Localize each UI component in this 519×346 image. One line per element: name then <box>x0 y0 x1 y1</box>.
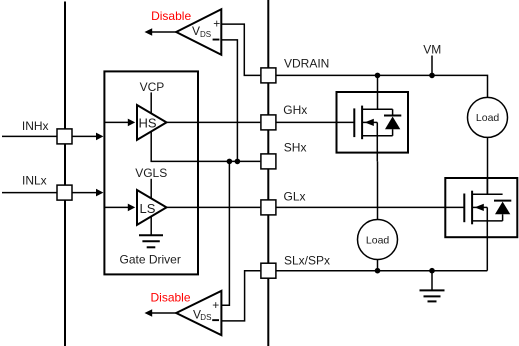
wire ground stem bottom right <box>431 271 433 291</box>
load 2 (VM load) <box>468 97 508 137</box>
transistor Q1 internals <box>354 106 401 162</box>
wire high-side FET drain from VDRAIN <box>377 75 379 109</box>
svg-text:Load: Load <box>476 112 500 124</box>
wire GLx net: LS output to pad and to FET gate <box>167 206 465 208</box>
wire INLx input line <box>2 189 103 197</box>
GHx label <box>283 103 307 117</box>
svg-text:V: V <box>192 24 200 38</box>
comparator U3 VDS bottom triangle <box>176 291 221 335</box>
svg-text:VGLS: VGLS <box>135 166 167 180</box>
svg-text:SHx: SHx <box>284 141 307 155</box>
wire SLx net <box>277 270 488 272</box>
pad GLx <box>261 200 276 215</box>
wire middle pad bus vertical <box>267 0 269 346</box>
pad INLx <box>57 185 72 200</box>
pad GHx <box>261 115 276 130</box>
svg-text:+: + <box>212 298 219 312</box>
Gate Driver label <box>120 253 181 267</box>
ground (gate driver) <box>139 235 163 247</box>
transistor Q1 high-side NMOS box <box>337 92 409 153</box>
svg-text:GHx: GHx <box>283 103 307 117</box>
wire VGLS tick down to LS buffer <box>150 179 152 199</box>
wire GHx net: HS output to pad and to FET gate <box>167 121 355 123</box>
wire VCP tick down to HS buffer <box>150 92 152 114</box>
svg-text:Disable: Disable <box>151 9 191 23</box>
wire INHx input line <box>2 133 103 141</box>
Disable label top <box>151 9 191 23</box>
svg-text:GLx: GLx <box>284 190 306 204</box>
SHx label <box>284 141 307 155</box>
wire VM to load 2 and low-side FET drain <box>487 137 489 194</box>
ground (power stage) <box>420 290 445 301</box>
node SHx junction dot left <box>227 159 233 165</box>
wire load1 bottom to SLx <box>377 260 379 271</box>
svg-text:Disable: Disable <box>151 290 191 304</box>
svg-text:SLx/SPx: SLx/SPx <box>284 254 330 268</box>
op-amp LS buffer <box>137 190 167 225</box>
svg-text:VCP: VCP <box>140 80 165 94</box>
node SLx ground dot <box>429 268 435 274</box>
GLx label <box>284 190 306 204</box>
gate driver box U1 <box>104 71 198 274</box>
INLx label <box>22 174 47 188</box>
wire VDRAIN net <box>277 75 488 97</box>
wire SHx net: HS buffer bottom down and right to SHx pad <box>151 131 260 162</box>
svg-text:VDRAIN: VDRAIN <box>284 57 329 71</box>
svg-text:HS: HS <box>139 116 157 131</box>
wire SHx to high-side FET source / load <box>377 161 379 219</box>
wire LS buffer bottom to ground <box>150 216 152 236</box>
pad SLx/SPx <box>261 263 276 278</box>
comparator U3 VDS bottom output arrow <box>145 309 177 317</box>
INHx label <box>22 119 49 133</box>
comparator U3 VDS bottom: - wire up to SLx pad <box>221 271 260 321</box>
pad SHx <box>261 154 276 169</box>
svg-text:LS: LS <box>140 201 156 216</box>
svg-text:Load: Load <box>366 234 390 246</box>
op-amp HS buffer <box>137 105 167 140</box>
svg-text:DS: DS <box>200 313 211 322</box>
load 1 (phase load) <box>358 220 398 260</box>
svg-text:+: + <box>213 17 220 31</box>
wire LS input (inside gate driver) <box>104 204 135 212</box>
VM label <box>423 42 441 56</box>
transistor Q2 low-side NMOS box <box>445 178 517 237</box>
transistor Q2 internals <box>464 178 511 271</box>
pad VDRAIN <box>261 68 276 83</box>
node high-side drain junction dot <box>375 73 381 79</box>
wire left input bus vertical <box>64 2 66 346</box>
pad INHx <box>57 129 72 144</box>
svg-text:VM: VM <box>423 42 441 56</box>
VDRAIN label <box>284 57 329 71</box>
SLx/SPx label <box>284 254 330 268</box>
comparator U2 VDS top triangle <box>176 9 221 55</box>
comparator U2 VDS top: + wire to VDRAIN pad <box>221 24 260 75</box>
VCP label <box>140 80 165 94</box>
wire HS input (inside gate driver) <box>104 119 135 127</box>
node SHx junction dot right <box>235 159 241 165</box>
wire VM tick <box>431 56 433 76</box>
VGLS label <box>135 166 167 180</box>
node VM junction dot <box>429 73 435 79</box>
node SLx load dot <box>375 268 381 274</box>
svg-text:INHx: INHx <box>22 119 49 133</box>
svg-text:INLx: INLx <box>22 174 47 188</box>
comparator U2 VDS top output arrow <box>145 28 177 36</box>
comparator U2 VDS top: - wire down to SHx <box>221 40 237 161</box>
svg-text:Gate Driver: Gate Driver <box>120 253 181 267</box>
comparator U3 VDS bottom: + wire up to SHx <box>221 161 229 305</box>
svg-text:DS: DS <box>200 30 211 39</box>
Disable label bottom <box>151 290 191 304</box>
